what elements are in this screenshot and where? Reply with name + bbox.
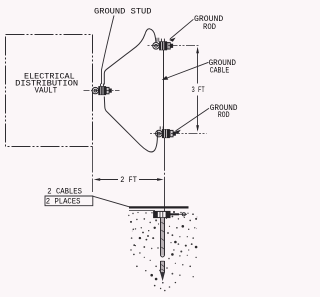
- top ground rod leader: [170, 19, 193, 39]
- top ground rod clamp: [153, 39, 173, 50]
- ground rod upper section: [161, 218, 165, 257]
- svg-text:GROUND STUD: GROUND STUD: [94, 8, 152, 17]
- svg-text:2 FT: 2 FT: [120, 176, 137, 185]
- svg-text:2 CABLES: 2 CABLES: [47, 188, 82, 197]
- top ground rod label: [194, 15, 223, 32]
- buried cable stub into rod clamp: [164, 208, 166, 212]
- 2 FT dimension left segment with left arrow: [94, 178, 101, 181]
- 2 cables leader to grade line: [93, 196, 131, 207]
- ground cable leader arrowhead: [162, 76, 169, 80]
- ground cable label: [209, 59, 237, 76]
- top ground rod leader arrowhead: [169, 38, 176, 42]
- svg-text:CABLE: CABLE: [210, 66, 230, 75]
- grade / ground line: [129, 206, 189, 208]
- lower ground rod label: [210, 104, 238, 120]
- vault edge extension line below vault: [92, 147, 94, 193]
- svg-text:ROD: ROD: [218, 111, 230, 120]
- earth stipple: [128, 211, 197, 291]
- 2 places label box: [45, 196, 93, 206]
- lower ground rod leader arrowhead: [174, 130, 181, 134]
- svg-text:VAULT: VAULT: [35, 86, 58, 95]
- clamp bolt: [170, 213, 179, 215]
- svg-text:2 PLACES: 2 PLACES: [46, 198, 81, 207]
- ground stud axis center line: [84, 90, 120, 92]
- upper ground cable from stud to top rod clamp: [104, 29, 156, 85]
- bottom ground rod clamp: [156, 126, 176, 137]
- bottom rod clamp axis center line: [150, 133, 207, 135]
- upper cable end double line into clamp: [156, 38, 158, 42]
- 2 cables 2 places label: [46, 188, 82, 207]
- vault label text: [15, 72, 78, 95]
- ground stud leader: [102, 16, 115, 85]
- svg-text:3 FT: 3 FT: [192, 86, 205, 95]
- buried ground rod clamp: [154, 211, 170, 217]
- short sub-grade line: [129, 210, 155, 212]
- lower ground rod leader: [176, 108, 210, 131]
- ground cable leader: [163, 62, 209, 79]
- 3 FT dimension line upper segment with up arrow: [197, 49, 199, 84]
- lower ground cable from stud to bottom rod clamp: [104, 97, 157, 152]
- ground rod lower section with point: [161, 261, 165, 280]
- top rod clamp axis center line: [148, 45, 201, 47]
- svg-text:ROD: ROD: [203, 23, 216, 32]
- ground stud clamp body: [92, 84, 111, 95]
- speck below rod tip: [162, 282, 164, 284]
- cable run from bottom clamp down to earth, center line style: [164, 138, 166, 207]
- 3 FT dimension line lower segment with down arrow: [197, 96, 199, 131]
- ground cable vertical run between clamps: [163, 49, 165, 130]
- 2 FT dimension right segment with right arrow: [139, 179, 159, 181]
- electrical distribution vault enclosure: [6, 35, 93, 147]
